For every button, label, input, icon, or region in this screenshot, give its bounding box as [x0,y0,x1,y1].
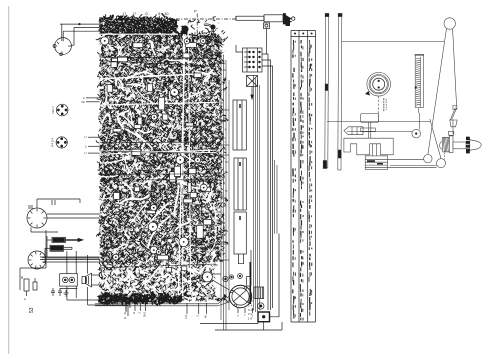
svg-text:0 48: 0 48 [248,308,254,312]
svg-text:U2: U2 [184,315,188,319]
svg-text:C 4: C 4 [248,303,253,307]
svg-text:U 27: U 27 [248,299,254,303]
svg-text:O.: O. [145,12,149,16]
svg-text:U: U [84,135,86,139]
svg-text:17: 17 [122,12,126,16]
svg-text:2H2: 2H2 [143,312,147,318]
svg-text:112 V: 112 V [51,106,55,114]
svg-text:U: U [84,151,86,155]
svg-text:40: 40 [81,100,85,104]
svg-text:53: 53 [29,307,35,313]
svg-text:8: 8 [158,12,160,16]
svg-text:A: A [132,312,136,314]
svg-text:P: P [194,9,197,14]
svg-text:G: G [123,312,127,314]
svg-text:40: 40 [204,315,208,319]
svg-text:40: 40 [165,12,169,16]
svg-text:P4 1/4: P4 1/4 [51,138,55,147]
